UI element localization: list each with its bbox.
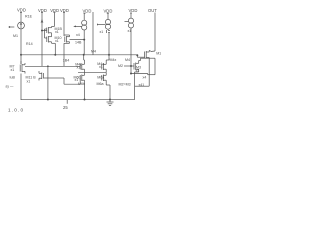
svg-text:a): a) bbox=[6, 84, 9, 88]
svg-text:14B: 14B bbox=[75, 41, 82, 45]
svg-text:M6a: M6a bbox=[97, 82, 104, 86]
svg-text:R1E: R1E bbox=[25, 15, 33, 19]
svg-text:x1: x1 bbox=[128, 29, 132, 33]
svg-text:R14: R14 bbox=[26, 42, 33, 46]
svg-text:—: — bbox=[10, 84, 14, 88]
svg-text:x1: x1 bbox=[77, 65, 81, 69]
svg-text:M4: M4 bbox=[91, 49, 96, 53]
svg-text:x1: x1 bbox=[55, 30, 59, 34]
svg-text:25: 25 bbox=[63, 105, 68, 110]
svg-text:M6b: M6b bbox=[78, 82, 85, 86]
svg-text:M2=M3: M2=M3 bbox=[119, 83, 131, 87]
svg-text:x1: x1 bbox=[27, 80, 31, 84]
svg-text:VDD: VDD bbox=[129, 8, 138, 13]
svg-text:x2: x2 bbox=[136, 69, 140, 73]
svg-text:x41: x41 bbox=[139, 83, 145, 87]
svg-text:M6a: M6a bbox=[97, 75, 104, 79]
svg-text:VDD: VDD bbox=[104, 9, 113, 14]
svg-text:M1: M1 bbox=[13, 34, 18, 38]
svg-text:VDD: VDD bbox=[38, 8, 47, 13]
svg-text:x4: x4 bbox=[143, 75, 147, 79]
svg-text:x1: x1 bbox=[11, 68, 15, 72]
svg-text:VDD: VDD bbox=[60, 8, 69, 13]
svg-text:M4: M4 bbox=[125, 58, 130, 62]
svg-text:M2: M2 bbox=[118, 64, 123, 68]
svg-text:VDD: VDD bbox=[17, 8, 26, 13]
svg-text:IuB: IuB bbox=[10, 76, 16, 80]
svg-text:M4x: M4x bbox=[110, 58, 117, 62]
svg-text:x1: x1 bbox=[99, 65, 103, 69]
svg-text:VDD: VDD bbox=[50, 8, 59, 13]
svg-text:1.0.0: 1.0.0 bbox=[8, 108, 24, 113]
svg-text:x1: x1 bbox=[55, 39, 59, 43]
svg-text:OUT: OUT bbox=[148, 8, 157, 13]
svg-text:x4: x4 bbox=[76, 33, 80, 37]
svg-text:x1: x1 bbox=[100, 30, 104, 34]
svg-text:M1: M1 bbox=[156, 52, 161, 56]
svg-text:VDD: VDD bbox=[83, 9, 92, 14]
svg-text:1B4: 1B4 bbox=[63, 58, 69, 62]
